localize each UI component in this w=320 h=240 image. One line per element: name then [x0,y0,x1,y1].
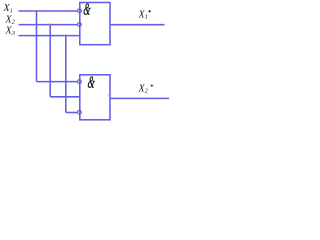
svg-text:&: & [83,0,92,18]
wire vertical drop from X1 node A [36,11,38,82]
wire bottom gate input 2 horizontal [50,96,80,98]
wire vertical drop from X2 node B [49,25,51,97]
wire X3 horizontal [19,35,81,37]
svg-text:X1: X1 [3,3,13,14]
wire output X1* [110,24,165,26]
wire bottom bubble feed horizontal [66,112,78,114]
stray pink mark near U2 output [108,94,109,95]
svg-text:&: & [87,73,96,92]
wire vertical drop from X3 node C [65,36,67,113]
wire X1 horizontal [19,10,79,12]
junction node B on X2 [49,23,51,25]
junction node C on X3 [65,34,67,36]
inversion bubble U2 input 1 [78,80,82,84]
inversion bubble U1 input 1 [78,9,82,13]
wire bottom gate input 1 horizontal [37,81,79,83]
svg-text:X2: X2 [5,14,16,25]
svg-text:X2: X2 [138,83,149,94]
output star for X2* [150,84,153,87]
svg-text:X1: X1 [138,9,148,20]
wire output X2* [110,97,169,99]
AND gate U1 body (top) [80,3,110,45]
output star for X1* [148,10,151,13]
inversion bubble U1 input 2 [78,23,82,27]
inversion bubble U2 input 2 [78,110,82,114]
junction node A on X1 [35,10,37,12]
AND gate U2 body (bottom) [80,75,110,120]
wire X2 horizontal [19,24,79,26]
svg-text:X3: X3 [5,26,16,37]
